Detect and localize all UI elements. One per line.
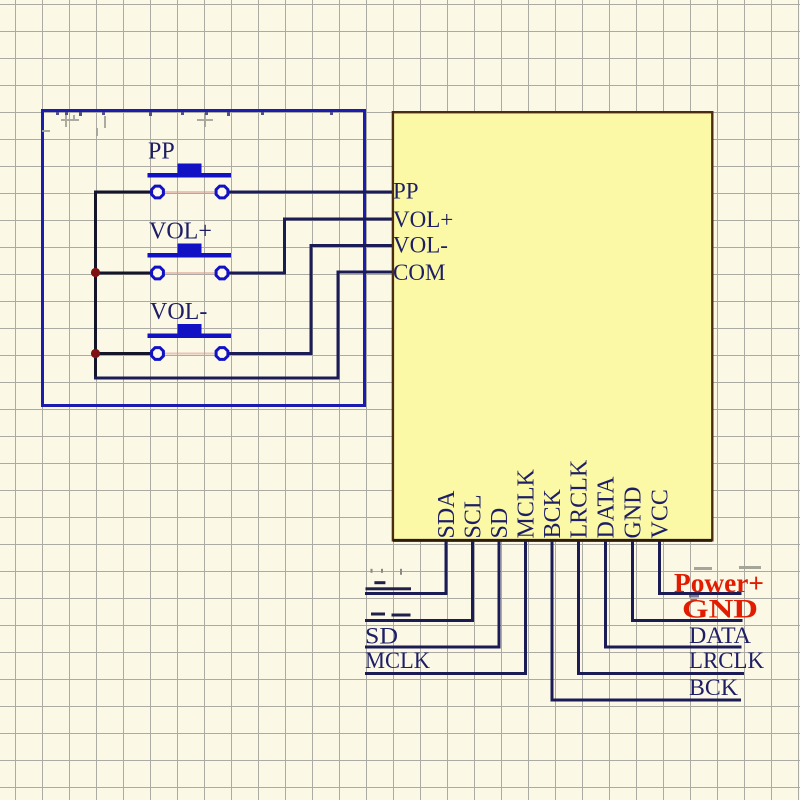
pushbutton S1 [148, 164, 232, 198]
ghost S mark above GND [689, 595, 699, 601]
svg-text:VOL-: VOL- [150, 299, 207, 325]
wire: GND from U1 pin [633, 541, 743, 621]
wire: SDA from U1 pin [365, 541, 446, 594]
wire: SCL from U1 pin [365, 541, 473, 621]
svg-text:VOL-: VOL- [393, 233, 448, 258]
module U1 audio decoder block [393, 112, 712, 540]
svg-text:GND: GND [682, 595, 758, 624]
tick nub marks under enclosure top border [56, 112, 333, 116]
svg-text:MCLK: MCLK [365, 648, 430, 673]
svg-text:COM: COM [393, 260, 445, 285]
svg-text:PP: PP [393, 179, 419, 204]
svg-text:DATA: DATA [594, 476, 620, 539]
wire: COM riser to module pin COM [338, 272, 392, 380]
wire: LRCLK from U1 pin [579, 541, 745, 674]
svg-text:SD: SD [365, 624, 398, 649]
svg-text:LRCLK: LRCLK [689, 648, 764, 673]
wire: PP button left stub [94, 191, 158, 194]
module U1 bottom border emphasis [393, 539, 712, 542]
svg-text:GND: GND [621, 487, 647, 539]
svg-text:LRCLK: LRCLK [567, 459, 593, 538]
pushbutton S2 [148, 244, 232, 279]
wire: bottom common run [94, 377, 338, 380]
wire: SD from U1 pin [365, 541, 499, 647]
svg-text:PP: PP [148, 139, 175, 165]
wire: DATA from U1 pin [606, 541, 742, 647]
wire: VOL+ net riser to module pin VOL+ [222, 219, 392, 273]
svg-text:VCC: VCC [648, 489, 674, 538]
wire: common left vertical bus [94, 191, 97, 380]
svg-text:VOL+: VOL+ [393, 207, 453, 232]
ghost marks above Power+ [694, 566, 761, 570]
svg-text:MCLK: MCLK [514, 468, 540, 538]
svg-text:BCK: BCK [689, 675, 738, 700]
junction dot at VOL- row [91, 349, 100, 358]
junction dot at VOL+ row [91, 268, 100, 277]
wire: BCK from U1 pin [552, 541, 741, 700]
svg-text:SCL: SCL [461, 494, 487, 538]
ghost marks above SDA stub [371, 569, 403, 575]
svg-text:SDA: SDA [434, 490, 460, 539]
pushbutton S3 [148, 324, 232, 359]
wire: VCC from U1 pin [660, 541, 742, 594]
svg-text:VOL+: VOL+ [149, 219, 212, 245]
svg-text:SD: SD [487, 508, 513, 539]
wire: VOL- net riser to module pin VOL- [222, 246, 392, 354]
svg-text:DATA: DATA [689, 623, 751, 648]
svg-text:BCK: BCK [540, 488, 566, 538]
wire: MCLK from U1 pin [365, 541, 526, 674]
keypad enclosure box [43, 111, 365, 406]
wire: PP net to module pin PP [222, 191, 392, 194]
wire: VOL- button left stub [96, 352, 159, 355]
ghost marks above SCL stub [371, 613, 411, 617]
svg-text:Power+: Power+ [674, 568, 764, 598]
wire: VOL+ button left stub [96, 272, 159, 275]
faint ghost annotation marks inside enclosure top-left [42, 114, 213, 136]
